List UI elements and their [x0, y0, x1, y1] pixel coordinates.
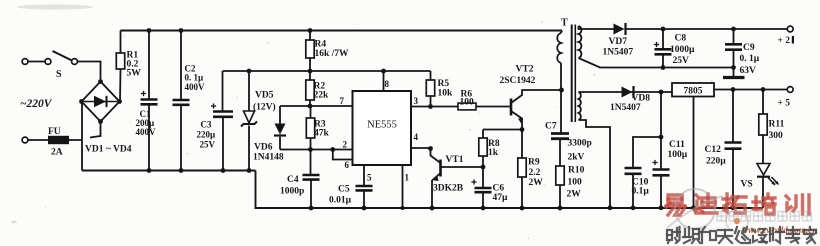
svg-text:22k: 22k — [314, 91, 330, 101]
resistor R2 22k — [309, 71, 311, 80]
svg-text:5: 5 — [367, 173, 372, 183]
resistor R5 10k — [430, 71, 432, 80]
wire — [626, 28, 787, 30]
svg-text:6: 6 — [345, 160, 350, 170]
svg-text:4: 4 — [414, 132, 419, 142]
svg-text:+ 2: + 2 — [778, 36, 791, 46]
svg-text:2kV: 2kV — [568, 153, 585, 163]
svg-text:~220V: ~220V — [20, 98, 53, 110]
svg-text:R11: R11 — [769, 120, 785, 130]
svg-text:+ 5: + 5 — [778, 99, 791, 109]
svg-text:2W: 2W — [567, 190, 582, 200]
capacitor C6 47u — [482, 167, 484, 188]
terminal AC neutral — [22, 137, 28, 143]
watermark logo circle — [675, 189, 715, 229]
svg-text:3300p: 3300p — [568, 139, 592, 149]
svg-text:(12V): (12V) — [253, 102, 276, 113]
wire 7805 ground pin — [693, 97, 695, 208]
svg-text:2.2: 2.2 — [529, 168, 541, 178]
svg-text:VD7: VD7 — [609, 37, 628, 47]
capacitor C2 0.1u 400V — [180, 31, 182, 100]
svg-text:25V: 25V — [200, 140, 216, 150]
resistor R3 47k — [310, 106, 312, 118]
resistor R8 1k — [479, 138, 487, 156]
svg-text:3: 3 — [414, 96, 419, 106]
svg-text:100: 100 — [460, 98, 475, 108]
capacitor C11 100u — [652, 162, 657, 164]
svg-text:VS: VS — [741, 180, 753, 190]
wire pin 4 node — [411, 147, 431, 149]
resistor R10 100 2W — [556, 166, 564, 185]
wire negative rail left — [82, 170, 256, 172]
wire emitter node — [483, 129, 522, 131]
svg-text:S: S — [56, 69, 62, 80]
svg-text:220µ: 220µ — [706, 157, 726, 167]
svg-text:100: 100 — [568, 178, 583, 188]
wire — [28, 61, 45, 63]
svg-text:C5: C5 — [338, 185, 350, 195]
zener diode VD5 12V — [248, 71, 250, 111]
svg-text:C3: C3 — [201, 120, 212, 130]
diode VD7 1N5407 — [614, 24, 625, 35]
svg-text:7805: 7805 — [684, 87, 703, 97]
capacitor C10 0.1u — [625, 167, 642, 170]
switch S — [45, 59, 51, 65]
wire pin 6 jog — [333, 150, 353, 160]
wire pin 3 to base — [411, 106, 458, 108]
svg-text:300: 300 — [769, 131, 784, 141]
svg-text:1: 1 — [405, 173, 410, 183]
svg-text:1000p: 1000p — [280, 187, 304, 197]
resistor R9 2.2 2W — [521, 130, 523, 159]
svg-text:VD1 ~ VD4: VD1 ~ VD4 — [85, 145, 132, 155]
svg-text:0.01µ: 0.01µ — [329, 196, 352, 206]
LED VS — [757, 164, 770, 176]
svg-text:R10: R10 — [568, 166, 585, 176]
transistor VT2 2SC1942 — [510, 99, 513, 116]
wire +20V rail — [579, 26, 614, 29]
capacitor C9 0.1u 63V — [733, 29, 735, 44]
svg-text:C11: C11 — [669, 140, 685, 150]
watermark slogan dark — [667, 227, 816, 243]
wire top HV rail — [121, 30, 563, 32]
svg-text:2A: 2A — [51, 148, 63, 158]
watermark red logo text — [666, 194, 809, 215]
svg-text:0.1µ: 0.1µ — [632, 187, 650, 197]
watermark faint tagline — [717, 212, 811, 222]
terminal +5V — [787, 87, 793, 93]
transformer secondary winding 2 — [579, 92, 581, 120]
svg-text:47µ: 47µ — [493, 193, 509, 203]
pin 5 — [363, 165, 365, 186]
svg-text:16k /7W: 16k /7W — [315, 49, 350, 59]
resistor R6 100 — [458, 103, 476, 110]
svg-text:3DK2B: 3DK2B — [433, 184, 464, 194]
svg-text:VD6: VD6 — [254, 143, 273, 153]
svg-text:10k: 10k — [438, 89, 454, 99]
svg-text:1N4148: 1N4148 — [253, 153, 284, 163]
svg-text:VD8: VD8 — [632, 94, 651, 104]
wire bridge left corner to fuse and ground rail — [81, 102, 83, 171]
svg-text:C12: C12 — [705, 145, 722, 155]
wire — [78, 62, 101, 80]
svg-text:400V: 400V — [136, 127, 157, 137]
capacitor C4 1000p — [310, 150, 312, 175]
resistor R11 300 — [762, 90, 764, 115]
capacitor C3 220u 25V — [222, 71, 224, 111]
svg-text:8: 8 — [385, 79, 390, 89]
wire secondary2 return — [579, 120, 611, 208]
pin 8 — [383, 71, 385, 91]
svg-text:FU: FU — [48, 127, 61, 137]
wire collector node — [560, 63, 562, 133]
transformer T core — [571, 25, 573, 123]
pin 1 — [402, 165, 404, 208]
svg-text:2SC1942: 2SC1942 — [500, 76, 536, 86]
svg-text:NE555: NE555 — [367, 120, 397, 131]
wire +5V rail — [714, 89, 787, 91]
svg-text:C4: C4 — [287, 175, 299, 185]
svg-text:R4: R4 — [315, 40, 327, 50]
wire pin 2 node — [280, 149, 353, 151]
capacitor C7 3300p 2kV — [551, 132, 569, 135]
capacitor C5 0.01u — [356, 185, 373, 188]
diode VD6 1N4148 — [279, 106, 281, 124]
resistor R4 16k/7W — [309, 31, 311, 41]
capacitor C8 1000u 25V — [662, 29, 664, 49]
terminal AC live — [22, 59, 28, 65]
svg-text:5W: 5W — [127, 69, 142, 79]
svg-text:C6: C6 — [493, 184, 505, 194]
svg-text:R5: R5 — [438, 79, 450, 89]
svg-text:7: 7 — [340, 96, 345, 106]
svg-text:220µ: 220µ — [197, 130, 217, 140]
svg-text:VT1: VT1 — [446, 155, 464, 165]
svg-text:C7: C7 — [545, 122, 557, 132]
transistor VT1 3DK2B — [439, 160, 442, 177]
svg-text:0. 1µ: 0. 1µ — [185, 73, 205, 83]
wire secondary1 return — [579, 58, 734, 68]
wire 7805 input — [579, 91, 673, 93]
svg-text:25V: 25V — [673, 56, 690, 66]
svg-text:1N5407: 1N5407 — [603, 48, 634, 58]
svg-text:47k: 47k — [314, 129, 330, 139]
transformer secondary winding 1 — [579, 26, 582, 58]
transformer primary winding — [561, 31, 562, 34]
capacitor C1 200u 400V — [148, 31, 150, 100]
wire pin 7 node — [280, 105, 353, 107]
svg-text:0. 1µ: 0. 1µ — [740, 54, 760, 64]
bridge rectifier VD1~VD4 — [82, 82, 120, 122]
svg-text:2W: 2W — [529, 178, 544, 188]
svg-text:400V: 400V — [185, 82, 206, 92]
svg-text:R9: R9 — [528, 158, 540, 168]
svg-text:63V: 63V — [740, 66, 757, 76]
svg-text:C9: C9 — [743, 43, 755, 53]
wire bridge bottom stub — [90, 122, 101, 138]
svg-text:C8: C8 — [675, 34, 687, 44]
fuse FU 2A — [28, 139, 83, 141]
watermark e logo — [726, 210, 748, 232]
svg-text:1000µ: 1000µ — [670, 45, 695, 55]
resistor R1 0.2 5W — [120, 31, 122, 54]
svg-text:2: 2 — [343, 140, 348, 150]
svg-text:1k: 1k — [488, 148, 499, 158]
wire C10/C11 branch — [660, 92, 662, 169]
svg-text:100µ: 100µ — [668, 150, 688, 160]
wire ground rail — [256, 171, 764, 209]
voltage regulator 7805 — [672, 83, 714, 97]
svg-text:VT2: VT2 — [516, 65, 534, 75]
wire mid rail — [223, 70, 431, 72]
op-amp U1 NE555 — [353, 91, 412, 165]
terminal +20V — [787, 26, 793, 32]
svg-text:VD5: VD5 — [255, 91, 274, 101]
svg-text:T: T — [561, 18, 568, 29]
svg-text:1N5407: 1N5407 — [610, 103, 641, 113]
ground — [723, 76, 745, 79]
capacitor C12 220u — [732, 90, 734, 143]
diode VD8 1N5407 — [622, 87, 633, 98]
